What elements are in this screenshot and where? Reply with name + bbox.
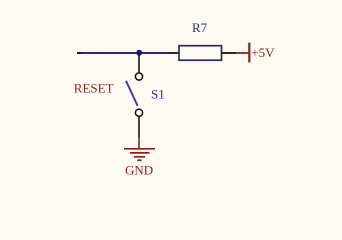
wire (horizontal net to resistor) [81, 52, 166, 54]
wire (junction down to switch top pin) [138, 53, 140, 73]
ground bar 4 [137, 159, 141, 161]
node junction dot [136, 50, 142, 56]
ground bar 2 [130, 152, 150, 154]
switch S1 top terminal circle [135, 73, 142, 80]
ground bar 3 [134, 156, 145, 158]
+5V power bar [248, 43, 250, 63]
wire (pin to +5V port, red) [236, 52, 249, 54]
resistor R7 right pin [222, 52, 237, 54]
ground stem [138, 137, 140, 148]
ground bar 1 [124, 148, 155, 150]
resistor R7 body [179, 46, 222, 61]
switch S1 bottom terminal circle [135, 109, 142, 116]
wire (left horizontal, black tip) [77, 52, 83, 54]
svg-text:RESET: RESET [74, 81, 114, 96]
resistor R7 left pin [166, 52, 179, 54]
svg-text:S1: S1 [151, 87, 165, 102]
wire (switch bottom pin down) [138, 117, 140, 138]
svg-text:R7: R7 [192, 20, 208, 35]
switch S1 lever [126, 81, 138, 106]
svg-text:+5V: +5V [251, 45, 275, 60]
svg-text:GND: GND [125, 163, 153, 178]
